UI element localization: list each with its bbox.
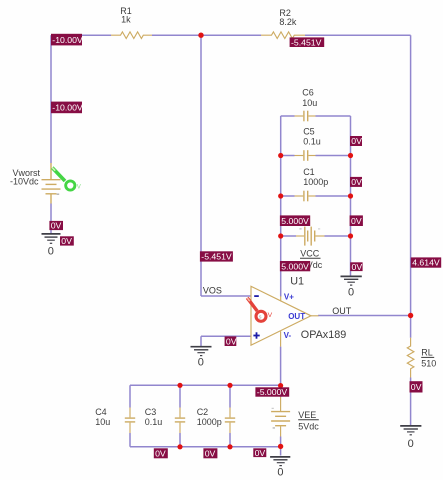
wire VOS horizontal to inverting input — [201, 295, 251, 297]
wire VCC left rail vertical — [280, 116, 282, 297]
red voltage probe on op-amp — [247, 298, 272, 322]
junction node VEE rail at battery — [278, 383, 283, 388]
svg-text:0V: 0V — [155, 449, 166, 459]
wire VEE bottom ground rail — [130, 446, 281, 448]
VCC polarity marks — [299, 228, 301, 229]
wire left vertical (top to Vworst) — [50, 35, 52, 163]
svg-text:C2: C2 — [197, 407, 209, 417]
svg-text:VCC: VCC — [300, 248, 320, 258]
wire top horizontal middle segment — [152, 34, 261, 36]
wire C5 row purple stubs — [281, 155, 351, 157]
svg-text:8.2k: 8.2k — [279, 17, 297, 27]
wire VCC battery row right — [325, 235, 351, 237]
wire VCC battery row left — [281, 235, 296, 237]
wire VEE battery vertical segments — [280, 385, 282, 455]
svg-text:5Vdc: 5Vdc — [298, 422, 319, 432]
capacitor C4 — [125, 408, 135, 434]
svg-text:5.000V: 5.000V — [281, 261, 309, 271]
bias label -5.451V on VOS branch — [200, 251, 233, 261]
svg-text:-10Vdc: -10Vdc — [10, 177, 39, 187]
bias label 0V at C5 right — [350, 136, 362, 146]
green voltage probe on Vworst — [52, 168, 82, 191]
ground 0 below Vworst — [42, 234, 61, 243]
svg-text:0: 0 — [277, 466, 283, 478]
svg-text:0V: 0V — [351, 136, 362, 146]
bias label 0V at VCC battery right — [350, 215, 363, 226]
bias label -10.00V mid left — [51, 102, 83, 114]
svg-text:0: 0 — [408, 438, 414, 450]
wire op-amp V- pin to VEE rail — [280, 347, 282, 386]
svg-text:V+: V+ — [284, 292, 294, 301]
junction node C1 right — [348, 193, 353, 198]
bias label -5.451V on top wire — [290, 37, 325, 47]
Vworst minus mark — [57, 194, 60, 195]
svg-text:1000p: 1000p — [197, 417, 222, 427]
junction node ground rail at C3 — [177, 444, 182, 449]
wire C6 row right — [316, 115, 351, 117]
wire C6 row left — [281, 115, 295, 117]
op-amp minus input mark — [254, 295, 259, 297]
svg-text:0V: 0V — [255, 448, 266, 458]
bias label 4.614V on right rail — [411, 257, 441, 267]
wire C1 row purple stubs — [281, 195, 351, 197]
junction node C5 left — [278, 153, 283, 158]
voltage source VEE battery — [271, 397, 290, 437]
svg-text:C3: C3 — [145, 407, 157, 417]
svg-text:OUT: OUT — [332, 306, 352, 316]
svg-text:0.1u: 0.1u — [303, 136, 321, 146]
svg-text:RL: RL — [421, 348, 433, 358]
wire VEE top rail — [130, 384, 281, 386]
junction node on top wire at VOS branch — [198, 33, 203, 38]
svg-text:0V: 0V — [351, 216, 362, 226]
bias label -10.00V top left — [51, 34, 83, 46]
VEE polarity marks — [272, 408, 274, 409]
svg-text:0V: 0V — [51, 221, 62, 231]
svg-text:-5.000V: -5.000V — [257, 387, 288, 397]
svg-text:5.000V: 5.000V — [281, 216, 309, 226]
svg-text:10u: 10u — [95, 417, 110, 427]
wire below Vworst to ground — [50, 204, 52, 234]
bias label 0V ground rail right — [253, 448, 266, 458]
resistor R2 — [261, 32, 305, 39]
wire top horizontal left segment — [51, 34, 111, 36]
bias label 0V above VCC ground — [350, 262, 362, 272]
svg-text:OPAx189: OPAx189 — [301, 329, 346, 341]
svg-text:1k: 1k — [121, 15, 131, 25]
bias label 0V above Vworst ground — [49, 221, 63, 231]
junction node C1 left — [278, 193, 283, 198]
bias label 0V below RL — [410, 381, 423, 392]
voltage source Vworst — [42, 163, 61, 204]
svg-text:C5: C5 — [303, 126, 315, 136]
bias label 0V at C1 right — [350, 177, 362, 187]
junction node OUT at right rail — [408, 313, 413, 318]
ground 0 below VEE — [270, 457, 290, 466]
junction node VEE rail at C3 — [177, 383, 182, 388]
svg-text:-10.00V: -10.00V — [52, 35, 83, 45]
svg-text:0V: 0V — [352, 262, 363, 272]
svg-text:-5.451V: -5.451V — [201, 252, 232, 262]
svg-text:0V: 0V — [205, 449, 216, 459]
svg-text:C6: C6 — [302, 87, 314, 97]
junction node C5 right — [348, 153, 353, 158]
bias label 0V ground rail middle — [203, 448, 217, 458]
wire op-amp output to right rail — [318, 315, 411, 317]
wire C3 vertical segments — [179, 385, 181, 447]
op-amp V- pin stub — [280, 331, 282, 346]
capacitor C3 — [175, 408, 185, 434]
junction node VCC battery left — [278, 233, 283, 238]
op-amp plus input mark — [253, 332, 259, 338]
op-amp U1 triangle — [251, 286, 311, 345]
svg-text:VEE: VEE — [298, 410, 316, 420]
voltage source VCC battery — [296, 227, 325, 246]
svg-text:0V: 0V — [61, 236, 72, 246]
op-amp output pin stub — [311, 315, 319, 317]
ground 0 below RL — [400, 426, 421, 435]
bias label 0V right of Vworst ground — [60, 236, 74, 246]
wire VOS vertical branch — [200, 35, 202, 296]
svg-text:0: 0 — [198, 356, 204, 368]
wire C4 vertical segments — [129, 385, 131, 447]
wire VCC ground right rail vertical — [350, 116, 352, 276]
svg-text:V: V — [268, 312, 273, 319]
svg-text:-5.451V: -5.451V — [291, 37, 322, 47]
svg-text:U1: U1 — [290, 276, 304, 288]
svg-text:1000p: 1000p — [303, 177, 328, 187]
svg-text:0V: 0V — [351, 177, 362, 187]
ground 0 at noninverting input — [191, 347, 212, 356]
junction node ground rail at VEE — [278, 444, 283, 449]
svg-text:0: 0 — [48, 245, 54, 257]
capacitor C5 — [295, 150, 316, 161]
wire top horizontal right segment — [305, 34, 411, 36]
svg-text:0: 0 — [348, 286, 354, 298]
svg-text:4.614V: 4.614V — [412, 258, 440, 268]
svg-text:0V: 0V — [226, 336, 237, 346]
ground 0 on VCC return rail — [341, 276, 362, 285]
wire C2 vertical segments — [229, 385, 231, 447]
bias label 0V ground rail left — [154, 448, 168, 458]
svg-text:s: s — [259, 315, 262, 321]
bias label -5.000V on VEE rail — [255, 387, 289, 397]
svg-text:-10.00V: -10.00V — [52, 103, 83, 113]
resistor R1 — [111, 32, 152, 39]
junction node VEE rail at C2 — [227, 383, 232, 388]
wire noninverting input to ground — [200, 336, 202, 346]
junction node ground rail at C2 — [227, 444, 232, 449]
svg-text:0.1u: 0.1u — [145, 417, 163, 427]
bias label 5.000V at VCC rail — [280, 215, 310, 226]
svg-text:C1: C1 — [303, 167, 315, 177]
svg-text:510: 510 — [421, 359, 436, 369]
bias label 0V at noninverting input — [225, 336, 237, 346]
bias label 5.000V over VCC value — [280, 261, 310, 271]
capacitor C1 — [295, 191, 316, 202]
wire noninverting input horizontal — [201, 335, 251, 337]
resistor RL — [407, 338, 414, 378]
svg-text:0V: 0V — [411, 382, 422, 392]
svg-text:V-: V- — [284, 331, 292, 340]
svg-text:OUT: OUT — [288, 312, 305, 321]
wire right vertical (top to RL) — [410, 35, 412, 338]
capacitor C2 — [225, 408, 235, 434]
junction node VCC battery right — [348, 233, 353, 238]
capacitor C6 — [295, 111, 316, 122]
op-amp V+ pin stub — [280, 296, 282, 301]
svg-text:10u: 10u — [302, 98, 317, 108]
svg-text:C4: C4 — [95, 407, 107, 417]
wire right vertical below RL to ground — [410, 378, 412, 426]
svg-text:VOS: VOS — [203, 286, 222, 296]
